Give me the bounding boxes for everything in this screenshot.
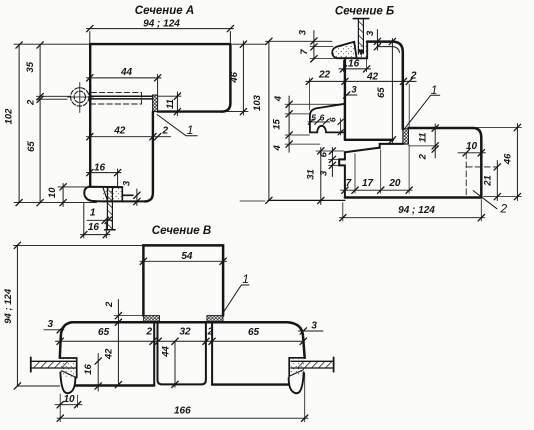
svg-text:1: 1 <box>431 83 438 97</box>
inner step line <box>378 42 400 53</box>
left stipple block <box>61 359 76 377</box>
inner edge with bottom rounded corner <box>145 112 153 202</box>
svg-text:2: 2 <box>26 99 37 106</box>
left drip foot <box>60 372 75 393</box>
svg-text:44: 44 <box>120 67 133 78</box>
svg-text:46: 46 <box>229 71 240 83</box>
left anchor plate <box>31 357 77 371</box>
dimension 5 and 6 inside bead <box>308 119 330 124</box>
dimension 11 section B <box>409 124 439 158</box>
dimension 65 vertical <box>389 38 395 144</box>
right anchor plate <box>291 357 334 371</box>
foot profile with rounded nose <box>84 187 144 202</box>
dimension stack 4 15 4 <box>285 96 341 152</box>
dimension 10 line <box>60 184 66 207</box>
frame head profile: top edge <box>90 43 231 45</box>
dimension 166 bottom <box>57 373 308 422</box>
left box right edge <box>153 322 155 385</box>
dimension 3 at foot right <box>134 189 140 206</box>
dimension 16 above foot <box>87 169 122 187</box>
svg-text:103: 103 <box>252 94 263 111</box>
svg-text:2: 2 <box>410 70 417 81</box>
threshold top profile <box>345 144 403 152</box>
svg-text:16: 16 <box>348 59 360 70</box>
dimension 35 / 65 line <box>37 42 43 206</box>
hinge axis line <box>37 96 71 99</box>
leader for pos 1 (section B) <box>404 95 440 129</box>
svg-text:7: 7 <box>299 49 310 55</box>
dimension 44 centre vertical <box>172 338 178 388</box>
svg-text:65: 65 <box>248 327 260 338</box>
svg-text:46: 46 <box>503 153 514 165</box>
svg-text:3: 3 <box>48 319 54 330</box>
frame head profile: rebate ledge <box>158 110 222 112</box>
dimension 16 under cap <box>339 59 371 72</box>
right box left edge <box>211 322 213 384</box>
glazing bead profile <box>310 104 345 133</box>
svg-text:3: 3 <box>318 170 329 176</box>
svg-text:42: 42 <box>113 126 126 137</box>
extension at floor level right of section A <box>240 200 265 202</box>
inner line with dims 65 2 32 2 65 <box>56 338 307 344</box>
dimension 2 and 42 left column <box>114 300 144 388</box>
svg-text:3: 3 <box>351 84 357 95</box>
svg-text:3: 3 <box>298 29 309 35</box>
leader for pos 1 (section A) <box>157 115 197 136</box>
right box outer corner and edge <box>288 322 305 358</box>
svg-text:16: 16 <box>88 222 100 233</box>
dimension 16 below foot <box>81 204 111 238</box>
head frame left edge <box>344 58 346 140</box>
seal strip double line <box>91 96 153 99</box>
screw shank in foot <box>105 187 116 230</box>
threshold left edge with notch <box>339 152 345 197</box>
dimension 94;124 vertical left <box>14 242 20 389</box>
hinge circle inner <box>74 91 85 102</box>
svg-text:102: 102 <box>4 108 15 125</box>
dimension 46 section B <box>477 124 522 201</box>
left baseline <box>17 385 60 387</box>
svg-text:6: 6 <box>320 112 325 122</box>
svg-text:31: 31 <box>306 169 317 180</box>
stipple in screw notch <box>357 44 367 58</box>
svg-text:42: 42 <box>104 348 115 360</box>
dimension 31 <box>318 148 324 205</box>
left box outer corner and edge <box>60 322 72 358</box>
svg-text:1: 1 <box>90 208 96 219</box>
head frame bottom edge <box>345 139 393 141</box>
left box bottom edge <box>75 384 154 386</box>
svg-text:10: 10 <box>466 141 478 152</box>
dimension 1 below foot <box>87 217 113 223</box>
dimension 46 right <box>224 41 265 115</box>
screw shank top <box>358 19 364 56</box>
dimension 3 and 7 left of cap <box>310 31 336 62</box>
svg-text:15: 15 <box>272 119 283 130</box>
dimension 10 dashed area <box>458 150 497 197</box>
dimension 94;124 bottom of section B <box>340 200 485 222</box>
svg-text:11: 11 <box>165 99 176 109</box>
svg-text:1: 1 <box>242 272 249 286</box>
svg-text:Сечение В: Сечение В <box>152 225 211 237</box>
left extension lines of section A <box>14 44 97 202</box>
svg-text:17: 17 <box>362 178 374 189</box>
svg-text:3: 3 <box>121 180 132 186</box>
hinge circle outer <box>71 88 89 106</box>
dimension 6 vertical inside bead <box>338 119 343 136</box>
right stipple block <box>290 359 305 376</box>
centre box of section V <box>143 245 223 315</box>
svg-text:2: 2 <box>146 327 153 338</box>
top extension line section V <box>14 244 144 246</box>
svg-text:6: 6 <box>327 117 337 122</box>
svg-text:94 ; 124: 94 ; 124 <box>3 288 14 324</box>
dimension 102 line <box>16 42 22 206</box>
svg-text:2: 2 <box>207 327 214 338</box>
screw head cap line <box>353 18 368 20</box>
svg-text:6: 6 <box>319 151 330 157</box>
foot stipple filling <box>103 188 121 201</box>
svg-text:11: 11 <box>418 133 429 143</box>
right notch ledge <box>289 358 305 376</box>
svg-text:7: 7 <box>346 178 352 189</box>
centre tongue <box>158 322 206 384</box>
right box bottom edge <box>212 383 289 385</box>
dimension 3 right of screw <box>374 30 380 51</box>
cross-hatched block section B <box>403 129 409 144</box>
leader for pos 1 (section V) <box>222 285 249 314</box>
sill bottom edge <box>345 196 481 199</box>
svg-text:54: 54 <box>181 251 193 262</box>
svg-text:Сечение А: Сечение А <box>135 5 194 17</box>
right drip foot <box>289 372 304 393</box>
svg-text:65: 65 <box>376 87 387 98</box>
dimension 22 42 2 line <box>306 78 416 127</box>
foot right edge and step <box>122 187 133 201</box>
svg-text:10: 10 <box>63 394 75 405</box>
svg-text:22: 22 <box>318 69 331 80</box>
seal cross-hatched block <box>153 95 158 112</box>
svg-text:2: 2 <box>104 301 115 308</box>
svg-text:94 ; 124: 94 ; 124 <box>398 205 435 216</box>
left diagonal in block <box>62 371 77 378</box>
dimension 16 left <box>95 354 101 392</box>
svg-text:16: 16 <box>94 162 106 173</box>
svg-text:3: 3 <box>365 30 376 36</box>
dimension 21 <box>494 161 500 201</box>
svg-text:44: 44 <box>160 346 171 358</box>
foot diagonal line <box>103 187 108 201</box>
frame head profile: left edge <box>89 44 91 186</box>
svg-text:2: 2 <box>162 125 169 136</box>
svg-text:1: 1 <box>187 123 194 137</box>
dimension 42 and 2 with line <box>87 134 171 140</box>
svg-text:21: 21 <box>483 175 494 187</box>
dimension 3 at frame edge below <box>344 92 358 98</box>
svg-text:10: 10 <box>47 187 58 198</box>
weather-strip cap profile <box>332 42 356 58</box>
dimension 54 <box>140 258 227 264</box>
cross-hatched block left <box>144 316 160 323</box>
dashed contour around seal <box>91 92 142 104</box>
right diagonal in block <box>289 370 303 376</box>
svg-text:Сечение Б: Сечение Б <box>335 6 394 18</box>
sill board top with corner and right edge <box>409 128 482 196</box>
dimension 103 left of section B <box>266 38 272 204</box>
cross-hatched block right <box>207 316 223 323</box>
svg-text:20: 20 <box>388 178 401 189</box>
floor line <box>268 199 345 201</box>
svg-text:16: 16 <box>83 364 94 375</box>
dimension 44 <box>87 75 162 95</box>
svg-text:65: 65 <box>26 141 37 152</box>
dimension 3 left corner <box>44 327 64 333</box>
dimension 10 left foot <box>55 395 82 408</box>
head frame top edge with corner <box>367 42 403 129</box>
svg-text:4: 4 <box>272 145 283 152</box>
frame head profile: right edge with rounded corner <box>222 44 231 112</box>
extension line y151 <box>316 150 344 152</box>
leader for pos 2 (section B) <box>473 191 497 209</box>
svg-text:42: 42 <box>366 72 379 83</box>
long left extension line y41 <box>266 40 333 42</box>
svg-text:4: 4 <box>273 95 284 102</box>
svg-text:166: 166 <box>174 405 191 416</box>
dimension 7 17 20 <box>341 145 413 193</box>
svg-text:3: 3 <box>311 320 317 331</box>
dimension 94;124 top of section A <box>87 25 234 42</box>
hinge crosshair <box>68 83 94 113</box>
svg-text:2: 2 <box>418 153 429 160</box>
long joint line across section V <box>72 321 288 324</box>
svg-text:65: 65 <box>98 327 110 338</box>
dimension 6 and 3 at threshold notch <box>329 148 340 177</box>
svg-text:94 ; 124: 94 ; 124 <box>143 18 180 29</box>
svg-text:32: 32 <box>179 327 191 338</box>
screw notch in frame <box>357 42 368 59</box>
svg-text:35: 35 <box>25 61 36 72</box>
left notch ledge <box>60 358 77 378</box>
svg-text:5: 5 <box>311 112 316 122</box>
dimension 11 vertical <box>158 92 181 116</box>
dimension 3 right corner <box>299 328 324 334</box>
svg-text:2: 2 <box>500 202 508 216</box>
